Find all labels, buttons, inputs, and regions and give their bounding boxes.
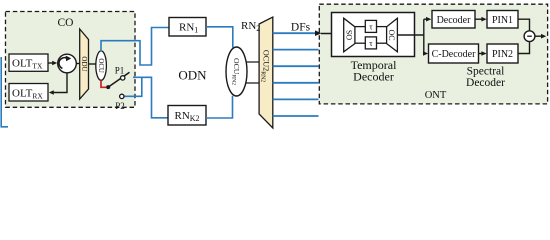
- OS splitter trapezoid: [344, 18, 355, 52]
- wire tau2 to OC: [377, 42, 387, 44]
- wire ODU to OCU: [89, 63, 97, 65]
- wire PIN1 to subtractor: [518, 19, 530, 30]
- svg-text:OC: OC: [387, 29, 396, 40]
- svg-text:OS: OS: [345, 30, 354, 40]
- DF line 4: [273, 82, 319, 84]
- wire OS to tau1: [355, 26, 365, 28]
- wire PIN2 to subtractor: [518, 42, 530, 54]
- contact P2: [120, 94, 124, 98]
- link OCU RN2 to OCU2 lower: [243, 82, 260, 84]
- svg-text:P2: P2: [115, 101, 125, 111]
- DF line 6: [273, 115, 319, 117]
- svg-text:Decoder: Decoder: [353, 70, 394, 84]
- DF line 3: [273, 65, 319, 67]
- svg-text:τ: τ: [369, 38, 373, 48]
- svg-text:ODN: ODN: [178, 68, 207, 83]
- wire circulator to OLT RX: [49, 73, 67, 95]
- circulator: [58, 54, 77, 73]
- wire split to C-Decoder: [423, 51, 428, 56]
- svg-text:P1: P1: [115, 66, 125, 76]
- switch lever: [108, 72, 129, 87]
- OCU2 RN2 demux trapezoid: [259, 17, 273, 128]
- wire P1 contact to RNK2 (blue): [133, 77, 169, 118]
- delay tau1 box: [365, 20, 376, 32]
- OC combiner trapezoid: [387, 18, 398, 52]
- wire circulator to ODU: [76, 63, 79, 65]
- RNK2 box: [168, 106, 206, 126]
- svg-text:DFs: DFs: [291, 22, 311, 34]
- svg-text:Decoder: Decoder: [437, 15, 472, 26]
- wire split to Decoder: [424, 17, 432, 22]
- wire tau1 to OC: [377, 26, 387, 28]
- wire OLT TX to circulator: [48, 61, 57, 65]
- svg-text:OCU: OCU: [97, 58, 104, 72]
- wire RN1 to OCU RN2: [206, 27, 233, 48]
- wire into temporal decoder: [321, 33, 344, 35]
- wire OS to tau2: [355, 42, 365, 44]
- PIN2 box: [487, 44, 518, 63]
- RN1 box: [169, 18, 206, 37]
- PIN1 box: [487, 11, 518, 29]
- wire P2 contact joining (blue): [124, 77, 142, 96]
- wire RNK2 to OCU RN2: [206, 96, 233, 118]
- svg-text:C-Decoder: C-Decoder: [432, 49, 477, 60]
- svg-text:CO: CO: [58, 17, 74, 29]
- DF line 5: [273, 98, 319, 100]
- C-Decoder box: [429, 44, 479, 63]
- svg-text:Spectral: Spectral: [467, 65, 505, 77]
- OLT RX box: [9, 84, 48, 102]
- subtractor circle: [524, 31, 535, 42]
- DF line 1 with arrow: [273, 30, 322, 36]
- svg-text:ONT: ONT: [425, 90, 447, 101]
- CO dashed box: [6, 12, 136, 108]
- svg-text:PIN2: PIN2: [492, 49, 513, 60]
- wire stray left blue: [1, 57, 8, 127]
- switch pivot: [106, 85, 110, 89]
- temporal decoder white box: [332, 13, 415, 57]
- wire C-Decoder to PIN2: [479, 51, 487, 56]
- wire OC out and split: [397, 19, 423, 53]
- OCU ellipse (CO): [96, 51, 107, 80]
- link OCU RN2 to OCU2 upper: [243, 61, 260, 63]
- wire OCU to switch (red): [101, 80, 107, 87]
- OLT TX box: [9, 54, 48, 71]
- contact P1: [121, 76, 125, 80]
- output arrow: [535, 34, 546, 39]
- ODU mux trapezoid: [80, 29, 89, 99]
- OCU RN2 ellipse: [226, 47, 247, 96]
- svg-text:ODU: ODU: [80, 56, 88, 71]
- wire OCU up and to RN1 (blue feeder): [101, 28, 170, 66]
- ONT dashed box: [319, 4, 547, 104]
- svg-text:τ: τ: [369, 21, 373, 31]
- svg-text:PIN1: PIN1: [492, 15, 513, 26]
- wire Decoder to PIN1: [475, 17, 487, 22]
- svg-text:Decoder: Decoder: [466, 77, 505, 89]
- delay tau2 box: [365, 37, 376, 49]
- DF line 2: [273, 49, 319, 51]
- Decoder box: [432, 11, 475, 29]
